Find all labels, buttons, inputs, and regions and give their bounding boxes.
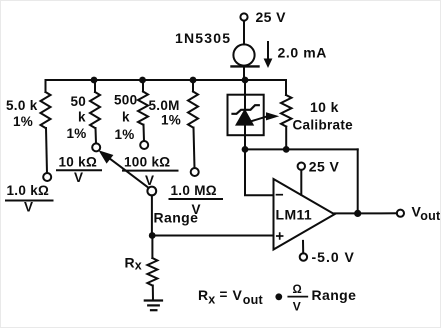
wire xyxy=(95,128,98,143)
svg-text:-5.0 V: -5.0 V xyxy=(312,249,355,265)
wire zener vertical xyxy=(244,80,246,149)
wire xyxy=(194,128,195,169)
junction node bus/R2 xyxy=(91,77,98,84)
terminal 1.0k range xyxy=(43,173,51,181)
junction node output xyxy=(354,210,361,217)
svg-text:Calibrate: Calibrate xyxy=(293,118,354,133)
fraction bar 1.0M/V xyxy=(170,198,223,200)
svg-text:k: k xyxy=(122,110,130,125)
op-amp U1 LM11 xyxy=(274,179,335,250)
wire feedback from output xyxy=(357,149,359,213)
wire inverting input path xyxy=(245,149,274,195)
svg-text:Range: Range xyxy=(312,287,357,303)
svg-text:R: R xyxy=(125,255,136,271)
zener bar xyxy=(233,105,259,114)
wire xyxy=(94,80,96,92)
wire xyxy=(243,21,245,45)
svg-text:LM11: LM11 xyxy=(276,207,313,223)
terminal 1.0M range xyxy=(191,168,199,176)
svg-text:Range: Range xyxy=(154,210,199,226)
svg-text:Ω: Ω xyxy=(293,284,302,296)
junction node bus/zener xyxy=(242,77,249,84)
current arrow shaft 2.0mA xyxy=(267,42,269,60)
svg-text:25 V: 25 V xyxy=(256,9,287,25)
current regulator D1 1N5305 xyxy=(233,44,254,65)
zener triangle xyxy=(235,109,254,126)
wire pole down xyxy=(151,195,153,235)
current arrowhead 2.0mA xyxy=(264,59,273,69)
op-amp plus sign xyxy=(277,235,283,237)
junction node zener bottom xyxy=(242,146,249,153)
pin V- wire xyxy=(302,241,304,253)
svg-text:5.0M: 5.0M xyxy=(149,98,180,113)
junction node bus/R4 xyxy=(190,77,197,84)
svg-text:V: V xyxy=(24,200,33,215)
junction node switch/Rx xyxy=(149,232,156,239)
resistor R2 50k xyxy=(90,92,100,128)
svg-text:V: V xyxy=(293,300,301,314)
terminal 10k range xyxy=(92,143,100,151)
svg-text:5.0 k: 5.0 k xyxy=(6,98,38,113)
terminal Vout xyxy=(397,210,404,217)
formula fraction bar xyxy=(288,296,307,298)
zener box xyxy=(228,95,264,136)
svg-text:25 V: 25 V xyxy=(309,159,340,175)
potentiometer R5 10k Calibrate xyxy=(281,95,292,127)
junction node pot bottom xyxy=(283,146,290,153)
op-amp minus sign xyxy=(277,194,283,196)
wire xyxy=(243,66,245,80)
terminal op-amp -5.0V xyxy=(300,253,307,260)
pin V+ wire xyxy=(300,170,302,195)
wire pot bottom xyxy=(285,127,287,150)
svg-text:V: V xyxy=(145,173,154,188)
svg-text:k: k xyxy=(78,110,86,125)
svg-text:V: V xyxy=(74,170,83,185)
svg-text:500: 500 xyxy=(114,93,137,108)
switch arm wire xyxy=(107,157,149,188)
svg-text:10 k: 10 k xyxy=(310,99,339,115)
fraction bar 1.0k/V xyxy=(6,200,53,202)
resistor R4 5.0M xyxy=(188,92,198,128)
svg-text:out: out xyxy=(243,293,264,307)
svg-text:50: 50 xyxy=(71,94,87,109)
svg-text:2.0 mA: 2.0 mA xyxy=(278,45,328,61)
wire node down to Rx xyxy=(151,236,153,259)
switch S1 pole xyxy=(147,187,156,196)
terminal op-amp +25V xyxy=(298,163,305,170)
wiper arrowhead xyxy=(266,112,279,120)
wire output xyxy=(335,212,397,214)
wire bus top xyxy=(46,80,287,95)
svg-text:1%: 1% xyxy=(161,113,181,128)
junction node bus/R3 xyxy=(139,77,146,84)
ground xyxy=(145,299,162,301)
svg-text:100 kΩ: 100 kΩ xyxy=(124,155,170,170)
wire xyxy=(142,80,144,92)
resistor R1 5.0k xyxy=(41,92,51,128)
svg-text:=: = xyxy=(220,287,228,302)
svg-text:out: out xyxy=(420,209,441,223)
svg-text:V: V xyxy=(233,287,243,303)
svg-text:R: R xyxy=(198,287,209,303)
svg-text:1.0 kΩ: 1.0 kΩ xyxy=(7,183,50,198)
wire xyxy=(143,125,146,141)
svg-text:1%: 1% xyxy=(115,127,135,142)
svg-text:1N5305: 1N5305 xyxy=(175,30,231,46)
wire xyxy=(192,80,194,92)
switch arrowhead xyxy=(99,150,114,163)
wire node to op-amp + input xyxy=(152,235,274,237)
svg-text:1.0 MΩ: 1.0 MΩ xyxy=(171,183,217,198)
svg-text:x: x xyxy=(135,259,142,273)
svg-text:x: x xyxy=(208,293,215,307)
svg-text:1%: 1% xyxy=(13,114,33,129)
fraction bar 10k/V xyxy=(57,169,101,171)
svg-text:1%: 1% xyxy=(67,126,87,141)
wire xyxy=(46,128,47,173)
fraction bar 100k/V xyxy=(123,170,178,172)
resistor Rx xyxy=(147,258,157,286)
wire bottom node row xyxy=(245,148,358,150)
resistor R3 500k xyxy=(138,92,148,125)
svg-text:10 kΩ: 10 kΩ xyxy=(59,155,98,170)
terminal +25V top xyxy=(240,13,247,20)
wiper arrow shaft xyxy=(251,117,267,122)
terminal 100k range xyxy=(140,141,148,149)
wire xyxy=(152,286,154,301)
